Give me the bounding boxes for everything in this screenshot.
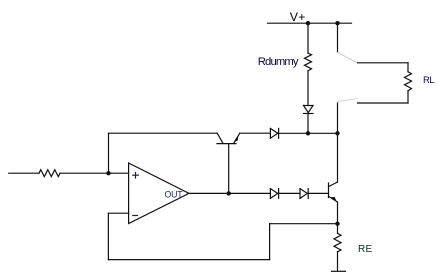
wire Q1 base to output node	[228, 144, 230, 194]
wire op-amp output row	[189, 192, 270, 194]
resistor RE	[334, 233, 341, 252]
svg-text:V+: V+	[290, 10, 306, 24]
wire feedback to RE node	[270, 223, 338, 225]
junction dot top row/Rdummy column	[306, 131, 310, 135]
wire V+ top rail	[268, 22, 352, 24]
wire feedback left vertical	[107, 213, 109, 259]
junction dot top row/right column	[335, 131, 339, 135]
diode D1 (cathode right)	[270, 128, 278, 138]
wire Q1 emitter to diode D1	[240, 132, 271, 134]
diode D2 (cathode right)	[270, 189, 278, 199]
junction dot output/Q1 base	[227, 191, 231, 195]
wire - input	[108, 212, 128, 214]
wire D3 to Q2 base	[308, 192, 328, 194]
wire + input sense vertical	[108, 133, 110, 173]
op-amp U1	[129, 163, 189, 224]
wire feedback right vertical	[269, 224, 271, 260]
wire R1 to op-amp + input	[60, 172, 129, 174]
resistor R1 (input)	[39, 170, 60, 177]
junction dot + input node	[106, 171, 110, 175]
wire top row to transistor Q1 collector	[109, 132, 218, 134]
wire faint diagonal to RL top lead	[338, 53, 358, 63]
wire Rdummy to diode D4	[307, 71, 309, 106]
ground terminal bar	[332, 270, 346, 272]
wire RE to terminal	[337, 252, 339, 271]
wire Q2 emitter down to RE	[337, 202, 339, 233]
transistor Q2 (NPN, base bar vertical)	[329, 182, 338, 202]
junction dot V+/Rdummy	[306, 21, 310, 25]
junction dot emitter/RE/feedback	[335, 222, 339, 226]
wire feedback bottom	[108, 259, 269, 261]
junction dot V+/right column	[335, 21, 339, 25]
wire D2 to D3	[279, 192, 300, 194]
svg-text:Rdummy: Rdummy	[258, 56, 299, 68]
wire RL bottom lead	[358, 102, 409, 104]
wire V+ rail to Rdummy	[307, 23, 309, 53]
svg-text:RL: RL	[423, 75, 434, 86]
wire D1 to V+ diode junction	[279, 132, 338, 134]
wire Q2 collector up to top diode row	[337, 133, 339, 182]
transistor Q1 (PNP, base bar horizontal)	[217, 133, 240, 143]
wire input stub	[9, 172, 39, 174]
resistor RL	[405, 63, 412, 103]
svg-text:OUT: OUT	[165, 190, 184, 200]
svg-text:RE: RE	[358, 244, 373, 255]
wire RL top lead	[358, 62, 409, 64]
wire right column from V+ rail down	[337, 23, 339, 52]
wire faint diagonal from RL bottom lead	[338, 99, 358, 102]
diode D4 (vertical, cathode down)	[304, 106, 314, 114]
resistor Rdummy	[305, 53, 312, 71]
diode D3 (cathode right)	[300, 189, 308, 199]
wire right column RL to top diode row	[337, 103, 339, 133]
wire D4 cathode to top diode row	[307, 114, 309, 134]
